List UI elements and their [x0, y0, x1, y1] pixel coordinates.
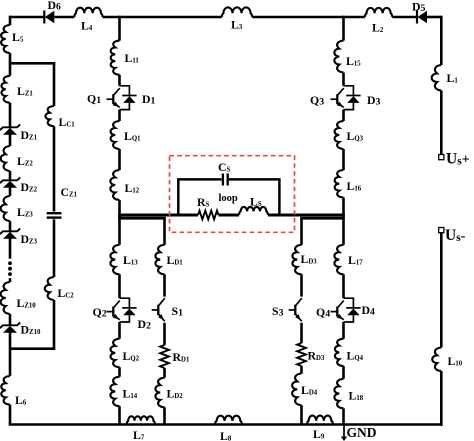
wire — [342, 198, 345, 216]
svg-text:S1: S1 — [172, 304, 184, 318]
inductor LQ4 — [335, 339, 344, 366]
label LC1 — [59, 115, 76, 129]
label Rs — [197, 195, 210, 209]
wire — [118, 149, 121, 170]
label RD3 — [308, 349, 325, 363]
inductor L11 — [111, 41, 120, 75]
wire — [342, 366, 345, 379]
label GND — [347, 425, 377, 440]
label DZ10 — [21, 323, 41, 337]
inductor L13 — [110, 245, 119, 274]
svg-text:D1: D1 — [142, 92, 156, 106]
svg-text:LC2: LC2 — [58, 286, 75, 300]
label LD3 — [301, 252, 318, 266]
inductor L16 — [335, 170, 344, 198]
inductor L1 — [432, 65, 442, 91]
svg-text:D3: D3 — [367, 93, 381, 107]
label L11 — [125, 51, 140, 65]
diode D4 — [344, 298, 361, 322]
label D6 — [48, 0, 62, 12]
label DZ2 — [21, 180, 38, 194]
svg-text:LZ1: LZ1 — [17, 84, 33, 98]
label L17 — [348, 253, 363, 267]
svg-text:RS: RS — [197, 195, 210, 209]
label Ls — [250, 195, 262, 209]
wire — [163, 323, 166, 345]
zener diode DZ1 — [0, 125, 20, 135]
inductor LZ2 — [1, 146, 10, 171]
wire — [118, 406, 121, 424]
svg-text:L14: L14 — [123, 387, 138, 401]
diode D6 — [44, 11, 54, 24]
label Q4 — [316, 305, 330, 319]
wire Cs riser left — [177, 179, 180, 215]
label L18 — [349, 389, 364, 403]
wire right lower — [440, 233, 443, 348]
inductor L9 — [307, 416, 333, 425]
svg-text:Q4: Q4 — [316, 305, 330, 319]
svg-text:L10: L10 — [448, 354, 463, 368]
inductor L8 — [215, 416, 242, 425]
svg-text:LZ2: LZ2 — [17, 154, 33, 168]
wire — [118, 110, 121, 121]
transistor S3 — [289, 298, 302, 321]
svg-text:LD2: LD2 — [167, 387, 184, 401]
svg-text:LS: LS — [250, 195, 262, 209]
label L12 — [125, 181, 140, 195]
wire — [53, 126, 56, 211]
inductor L17 — [334, 245, 343, 274]
label LQ4 — [347, 349, 364, 363]
wire — [342, 274, 345, 298]
inductor L18 — [334, 379, 343, 409]
svg-text:LQ2: LQ2 — [123, 349, 140, 363]
label L9 — [313, 427, 325, 441]
wire — [342, 73, 345, 86]
snubber loop box — [170, 156, 295, 233]
diode D5 — [417, 11, 427, 24]
label L3 — [231, 18, 243, 32]
inductor Ls — [239, 207, 268, 215]
svg-text:L18: L18 — [349, 389, 364, 403]
wire — [118, 219, 121, 245]
label LD1 — [167, 253, 184, 267]
diode D3 — [344, 86, 361, 110]
wire — [53, 300, 56, 349]
wire — [9, 103, 12, 128]
wire branch to CZ1 — [10, 62, 55, 65]
wire CZ branch upper — [53, 63, 56, 106]
wire — [440, 91, 443, 155]
wire — [53, 219, 56, 277]
label LQ3 — [347, 129, 364, 143]
svg-text:L8: L8 — [220, 429, 232, 441]
svg-text:LZ3: LZ3 — [17, 205, 33, 219]
inductor LD4 — [292, 374, 301, 406]
label LC2 — [58, 286, 75, 300]
wire — [118, 200, 121, 219]
terminal Us+ — [439, 155, 444, 160]
label D5 — [412, 0, 426, 14]
svg-text:L3: L3 — [231, 18, 243, 32]
wire — [9, 405, 12, 425]
svg-text:RD3: RD3 — [308, 349, 325, 363]
wire — [342, 149, 345, 170]
wire — [252, 16, 365, 19]
svg-text:L4: L4 — [81, 19, 93, 33]
inductor L6 — [1, 376, 10, 405]
inductor L12 — [110, 170, 119, 200]
label LZ2 — [17, 154, 33, 168]
svg-text:D5: D5 — [412, 0, 426, 14]
label D3 — [367, 93, 381, 107]
label L4 — [81, 19, 93, 33]
svg-text:DZ2: DZ2 — [21, 180, 38, 194]
wire — [9, 239, 12, 259]
label L6 — [15, 393, 27, 407]
label Cs — [218, 160, 231, 174]
svg-text:LQ4: LQ4 — [347, 349, 364, 363]
svg-text:L1: L1 — [447, 71, 459, 85]
wire stub right — [300, 215, 345, 219]
wire — [300, 274, 303, 296]
wire stub left — [118, 215, 166, 219]
svg-text:L16: L16 — [347, 179, 362, 193]
label D4 — [362, 303, 376, 317]
wire — [54, 16, 74, 19]
capacitor CZ1 — [47, 213, 62, 217]
transistor Q2 — [107, 301, 120, 320]
wire — [300, 323, 303, 343]
svg-text:LQ1: LQ1 — [124, 129, 141, 143]
wire — [342, 110, 345, 121]
svg-text:LC1: LC1 — [59, 115, 76, 129]
zener diode DZ2 — [0, 178, 20, 188]
wire branch from CZ1 — [10, 347, 55, 350]
inductor LD1 — [155, 245, 164, 274]
wire — [9, 53, 12, 76]
zener diode DZ3 — [0, 229, 20, 239]
svg-text:Us+: Us+ — [446, 151, 470, 168]
svg-text:Q3: Q3 — [310, 93, 324, 107]
wire top bus segment — [10, 16, 44, 19]
wire — [9, 314, 12, 325]
wire Cs top right — [229, 178, 281, 181]
wire — [118, 322, 121, 339]
inductor LZ3 — [1, 196, 10, 221]
svg-text:L6: L6 — [15, 393, 27, 407]
label L16 — [347, 179, 362, 193]
svg-text:L7: L7 — [133, 428, 145, 441]
inductor L10 — [432, 348, 441, 372]
label LZ10 — [17, 296, 37, 310]
resistor RD1 — [160, 345, 169, 368]
svg-text:CS: CS — [218, 160, 231, 174]
inductor L4 — [74, 8, 102, 17]
wire — [163, 274, 166, 296]
svg-text:LQ3: LQ3 — [347, 129, 364, 143]
inductor LZ10 — [1, 282, 10, 314]
label L2 — [372, 21, 384, 35]
svg-text:L13: L13 — [123, 253, 138, 267]
label LZ1 — [17, 84, 33, 98]
label LD2 — [167, 387, 184, 401]
label D1 — [142, 92, 156, 106]
label Q3 — [310, 93, 324, 107]
label L1 — [447, 71, 459, 85]
wire — [392, 16, 417, 19]
wire — [219, 214, 240, 217]
label L13 — [123, 253, 138, 267]
svg-text:D6: D6 — [48, 0, 62, 12]
inductor L3 — [222, 7, 252, 17]
wire — [163, 368, 166, 378]
inductor L14 — [110, 377, 119, 407]
label CZ1 — [61, 185, 78, 199]
wire Q3 column top — [342, 16, 345, 41]
label LQ1 — [124, 129, 141, 143]
svg-text:L11: L11 — [125, 51, 140, 65]
inductor L7 — [127, 416, 155, 424]
svg-text:LD3: LD3 — [301, 252, 318, 266]
inductor L15 — [334, 41, 343, 73]
label LD4 — [301, 383, 318, 397]
wire — [342, 219, 345, 245]
inductor L5 — [1, 25, 10, 53]
wire — [118, 367, 121, 377]
label L5 — [12, 30, 24, 44]
wire S1 column top — [163, 219, 166, 245]
wire — [300, 405, 303, 424]
label Us- — [445, 227, 466, 244]
capacitor Cs — [223, 174, 228, 186]
label DZ1 — [21, 128, 38, 142]
label S3 — [272, 304, 284, 318]
label Us+ — [446, 151, 470, 168]
label LZ3 — [17, 205, 33, 219]
inductor LQ1 — [111, 121, 120, 149]
svg-text:L5: L5 — [12, 30, 24, 44]
terminal Us- — [439, 228, 444, 233]
wire left top — [9, 16, 12, 25]
label DZ3 — [21, 232, 38, 246]
svg-text:LZ10: LZ10 — [17, 296, 37, 310]
svg-text:DZ10: DZ10 — [21, 323, 41, 337]
svg-text:D2: D2 — [138, 317, 152, 331]
label D2 — [138, 317, 152, 331]
inductor LC1 — [45, 106, 54, 126]
svg-text:Q2: Q2 — [93, 305, 107, 319]
transistor Q3 — [331, 88, 344, 107]
diode D1 — [120, 86, 137, 110]
wire — [118, 75, 121, 86]
wire — [118, 274, 121, 298]
svg-text:loop: loop — [219, 193, 238, 204]
ground GND — [341, 425, 347, 441]
wire — [9, 278, 12, 282]
label S1 — [172, 304, 184, 318]
wire — [268, 214, 345, 217]
label L7 — [133, 428, 145, 441]
svg-text:GND: GND — [347, 425, 377, 440]
wire — [9, 188, 12, 197]
wire — [9, 221, 12, 231]
svg-text:LD1: LD1 — [167, 253, 184, 267]
svg-text:Q1: Q1 — [87, 92, 101, 106]
svg-text:L12: L12 — [125, 181, 140, 195]
label loop — [219, 193, 238, 204]
svg-text:L2: L2 — [372, 21, 384, 35]
wire — [9, 171, 12, 180]
wire bottom bus — [9, 423, 443, 426]
wire — [427, 16, 441, 65]
resistor RD3 — [297, 343, 306, 366]
inductor LQ2 — [111, 339, 120, 368]
svg-text:LD4: LD4 — [301, 383, 318, 397]
transistor Q1 — [107, 88, 120, 107]
inductor L2 — [365, 8, 392, 17]
wire — [342, 322, 345, 339]
svg-text:D4: D4 — [362, 303, 376, 317]
inductor LD3 — [292, 245, 301, 274]
label LQ2 — [123, 349, 140, 363]
wire — [163, 407, 166, 424]
transistor Q4 — [331, 301, 344, 320]
label L14 — [123, 387, 138, 401]
label Q1 — [87, 92, 101, 106]
svg-text:L15: L15 — [346, 54, 361, 68]
wire — [103, 16, 222, 19]
wire — [342, 408, 345, 424]
wire Cs top left — [177, 178, 222, 181]
transistor S1 — [152, 298, 165, 321]
inductor LZ1 — [1, 76, 10, 103]
wire — [440, 371, 443, 426]
wire Cs riser right — [278, 179, 281, 215]
diode D2 — [120, 298, 137, 322]
zener diode DZ10 — [0, 323, 20, 333]
wire — [300, 366, 303, 374]
inductor LD2 — [155, 378, 164, 408]
svg-text:Us-: Us- — [445, 227, 466, 244]
inductor LQ3 — [335, 121, 344, 149]
label Q2 — [93, 305, 107, 319]
svg-text:DZ3: DZ3 — [21, 232, 38, 246]
label RD1 — [173, 350, 190, 364]
inductor LC2 — [45, 277, 54, 300]
resistor Rs — [198, 211, 219, 220]
wire Q1 column top — [118, 16, 121, 41]
label L8 — [220, 429, 232, 441]
svg-text:DZ1: DZ1 — [21, 128, 38, 142]
label L10 — [448, 354, 463, 368]
svg-text:L9: L9 — [313, 427, 325, 441]
wire — [9, 135, 12, 147]
label L15 — [346, 54, 361, 68]
wire S3 column top — [300, 219, 303, 245]
wire middle bus — [118, 214, 198, 217]
wire — [9, 333, 12, 377]
svg-text:RD1: RD1 — [173, 350, 190, 364]
ellipsis dots — [8, 261, 12, 276]
svg-text:CZ1: CZ1 — [61, 185, 78, 199]
svg-text:S3: S3 — [272, 304, 284, 318]
svg-text:L17: L17 — [348, 253, 363, 267]
